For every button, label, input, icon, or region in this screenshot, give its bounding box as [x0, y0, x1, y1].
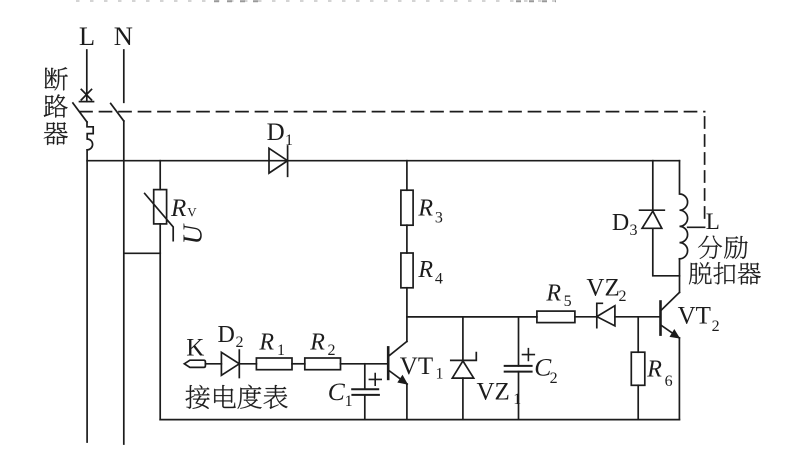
- zener VZ2: [597, 303, 615, 327]
- dashed mechanical linkage from breaker: [80, 111, 705, 113]
- svg-text:2: 2: [712, 318, 720, 335]
- rotated U annotation at RV: [177, 223, 207, 244]
- node L phase input wire: [86, 50, 88, 102]
- transistor VT2 emitter: [661, 325, 679, 338]
- dashed linkage vertical to trip coil: [704, 117, 706, 221]
- circuit breaker thermal-magnetic element: [87, 122, 93, 150]
- zener VZ1: [451, 353, 477, 379]
- svg-text:R: R: [170, 195, 186, 222]
- resistor R1 body: [256, 358, 292, 370]
- svg-text:1: 1: [277, 342, 285, 359]
- wire N line down to bottom: [123, 121, 125, 444]
- svg-text:C: C: [328, 377, 346, 406]
- zener VZ1 bottom lead: [462, 378, 464, 420]
- capacitor C2 bottom lead: [518, 372, 520, 420]
- capacitor C2 plates: [505, 366, 532, 372]
- wire D2 to R1: [239, 363, 256, 365]
- svg-text:R: R: [646, 356, 662, 382]
- svg-text:K: K: [186, 335, 204, 362]
- svg-text:L: L: [79, 21, 95, 51]
- svg-text:N: N: [114, 21, 133, 51]
- resistor R6 bottom lead: [637, 385, 639, 419]
- svg-text:4: 4: [435, 270, 443, 287]
- svg-text:R: R: [417, 257, 433, 283]
- C2 polarity plus: [523, 349, 535, 361]
- wire R5 to VZ2: [575, 316, 597, 318]
- resistor R3 body: [401, 190, 413, 225]
- wire RV bottom to N: [124, 224, 160, 253]
- svg-text:VT: VT: [678, 303, 711, 330]
- svg-text:1: 1: [285, 132, 293, 149]
- faint cropped text row at top edge: [76, 0, 560, 2]
- capacitor C1 bottom lead: [364, 395, 366, 420]
- breaker L-pole fixed contact tick: [80, 101, 94, 103]
- wire left edge of control box: [159, 253, 161, 419]
- svg-text:D: D: [218, 322, 235, 348]
- wire R1 to R2: [292, 363, 305, 365]
- svg-text:1: 1: [436, 366, 444, 383]
- breaker L-pole switch blade: [73, 103, 87, 122]
- svg-text:1: 1: [513, 391, 521, 408]
- wire VT2 emitter down to rail: [678, 338, 680, 420]
- svg-text:VZ: VZ: [586, 275, 619, 302]
- transistor VT1 base bar: [387, 347, 390, 379]
- svg-text:3: 3: [435, 210, 443, 227]
- trip coil L winding: [680, 161, 688, 259]
- transistor VT2 collector: [661, 292, 679, 310]
- resistor R6 body: [631, 352, 645, 385]
- svg-text:U: U: [177, 223, 207, 244]
- wire D3 bottom to coil branch: [653, 228, 680, 275]
- svg-text:VT: VT: [400, 353, 433, 380]
- wire VZ2 to VT2 base, R6 tap: [615, 316, 660, 318]
- zener VZ1 top lead: [462, 317, 464, 360]
- wire coil to VT2 collector: [679, 259, 681, 293]
- svg-text:2: 2: [550, 370, 558, 387]
- breaker N-pole switch blade: [111, 104, 124, 122]
- capacitor C1 plates: [352, 389, 379, 395]
- svg-text:R: R: [417, 195, 433, 221]
- wire top supply bus: [87, 160, 679, 162]
- svg-text:2: 2: [236, 334, 244, 351]
- resistor R5 body: [537, 311, 575, 323]
- svg-text:2: 2: [619, 288, 627, 305]
- breaker trip cross symbol: [81, 89, 91, 100]
- wire base rail: [407, 316, 537, 318]
- varistor RV diagonal arrow: [145, 194, 174, 241]
- svg-text:6: 6: [665, 373, 673, 390]
- label 脱扣器: [689, 262, 712, 284]
- svg-text:VZ: VZ: [477, 379, 510, 406]
- label breaker 断路器: [45, 67, 68, 90]
- svg-text:1: 1: [345, 393, 353, 410]
- capacitor C2 top lead: [518, 317, 520, 366]
- wire R4 down through rail node to VT1 collector: [406, 288, 408, 342]
- varistor RV body: [154, 190, 167, 224]
- VT1 emitter arrowhead: [397, 375, 408, 385]
- resistor R2 body: [305, 358, 341, 370]
- svg-text:R: R: [309, 329, 325, 355]
- transistor VT2 base bar: [659, 302, 662, 335]
- wire VT1 emitter down: [406, 384, 408, 420]
- transistor VT1 collector: [389, 341, 407, 356]
- svg-text:2: 2: [328, 342, 336, 359]
- wire R3 branch from bus: [406, 161, 408, 191]
- svg-text:D: D: [612, 210, 629, 236]
- svg-text:R: R: [258, 329, 274, 355]
- VT2 emitter arrowhead: [670, 329, 681, 339]
- transistor VT1 emitter: [389, 371, 407, 385]
- terminal K: [184, 360, 205, 367]
- wire N phase input: [123, 50, 125, 102]
- wire RV branch from bus: [159, 161, 161, 190]
- wire R2 to VT1 base, C1 tap: [341, 363, 388, 365]
- svg-text:L: L: [706, 209, 720, 234]
- resistor R6 top lead: [637, 317, 639, 352]
- svg-text:V: V: [187, 205, 197, 220]
- svg-text:5: 5: [564, 293, 572, 310]
- diode D3 branch from bus: [652, 161, 654, 211]
- diode D2: [221, 350, 239, 377]
- capacitor C1 top lead: [364, 364, 366, 389]
- label 接电度表: [186, 385, 210, 409]
- linkage tick at coil: [688, 226, 705, 228]
- C1 polarity plus: [369, 374, 381, 386]
- svg-text:3: 3: [630, 222, 638, 239]
- wire K to D2: [205, 363, 221, 365]
- diode D3: [640, 210, 665, 228]
- label 分励: [698, 236, 722, 259]
- wire L line down to bottom: [86, 150, 88, 442]
- svg-text:R: R: [545, 280, 561, 306]
- wire bottom rail: [160, 419, 679, 421]
- wire R3 to R4: [406, 225, 408, 253]
- diode D1: [269, 146, 288, 176]
- resistor R4 body: [401, 253, 413, 288]
- svg-text:D: D: [267, 119, 285, 146]
